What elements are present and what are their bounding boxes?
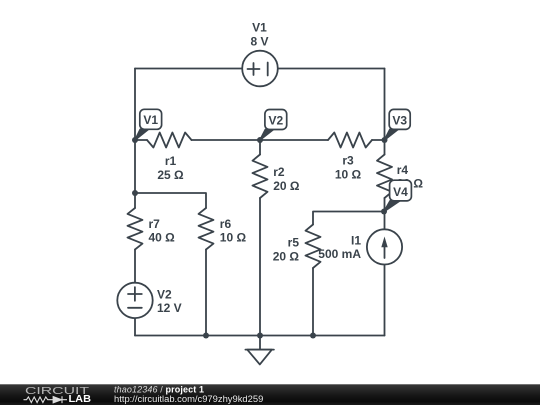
- net flag V2: [260, 130, 273, 141]
- svg-text:V3: V3: [392, 113, 407, 127]
- svg-text:r1: r1: [165, 154, 177, 168]
- net flag V4: [384, 201, 400, 212]
- net flag V1: [135, 129, 148, 140]
- resistor r5: [306, 225, 321, 269]
- wire r3 row: [260, 139, 385, 141]
- node V2: [257, 137, 263, 143]
- wire r5 branch: [313, 212, 384, 336]
- wire r1 row: [135, 139, 260, 141]
- wire bottom rail: [135, 335, 385, 337]
- node V1: [132, 137, 138, 143]
- net flags: [135, 109, 411, 211]
- svg-text:8 V: 8 V: [250, 35, 268, 49]
- ground: [245, 336, 274, 350]
- resistor r3: [328, 133, 372, 148]
- wire top rail: [135, 68, 385, 70]
- svg-text:thao12346 / project 1: thao12346 / project 1: [114, 385, 204, 395]
- node V4: [381, 209, 387, 215]
- svg-text:25 Ω: 25 Ω: [157, 168, 184, 182]
- footer bar: [0, 384, 540, 405]
- svg-text:20 Ω: 20 Ω: [273, 249, 300, 263]
- svg-text:V2: V2: [157, 288, 172, 302]
- voltage source V1: [242, 51, 278, 87]
- svg-text:20 Ω: 20 Ω: [273, 179, 300, 193]
- svg-text:r6: r6: [220, 217, 232, 231]
- svg-text:r3: r3: [342, 154, 354, 168]
- svg-text:r7: r7: [149, 217, 161, 231]
- svg-text:V1: V1: [143, 113, 158, 127]
- voltage source V2: [117, 283, 152, 318]
- node junction dots: [132, 137, 388, 339]
- svg-text:V1: V1: [252, 21, 267, 35]
- node V3: [382, 137, 388, 143]
- net flag V3: [385, 129, 398, 140]
- svg-text:V2: V2: [268, 114, 283, 128]
- resistor r2: [253, 155, 268, 199]
- wire left rail: [134, 69, 136, 336]
- svg-text:10 Ω: 10 Ω: [220, 231, 247, 245]
- svg-text:12 V: 12 V: [157, 301, 182, 315]
- node bottom r6: [203, 333, 209, 339]
- svg-text:r5: r5: [288, 236, 300, 250]
- svg-text:r4: r4: [397, 163, 409, 177]
- svg-text:10 Ω: 10 Ω: [335, 168, 362, 182]
- node bottom r5: [310, 333, 316, 339]
- wire r6 branch: [135, 193, 206, 336]
- node bottom ground: [257, 333, 263, 339]
- svg-text:LAB: LAB: [69, 394, 92, 405]
- svg-text:http://circuitlab.com/c979zhy9: http://circuitlab.com/c979zhy9kd259: [114, 394, 263, 404]
- resistor r1: [147, 133, 192, 148]
- svg-text:I1: I1: [351, 234, 361, 248]
- current source I1: [367, 229, 402, 264]
- wire r2 column: [259, 140, 261, 336]
- svg-text:V4: V4: [393, 185, 408, 199]
- wire right rail: [384, 69, 386, 336]
- svg-text:40 Ω: 40 Ω: [149, 231, 176, 245]
- logo resistor-diode glyph: [24, 396, 68, 403]
- svg-text:r2: r2: [273, 165, 285, 179]
- node branch left: [132, 190, 138, 196]
- resistor r6: [199, 208, 214, 250]
- resistor r7: [128, 208, 143, 250]
- resistor r4: [377, 155, 392, 199]
- svg-text:500 mA: 500 mA: [318, 247, 361, 261]
